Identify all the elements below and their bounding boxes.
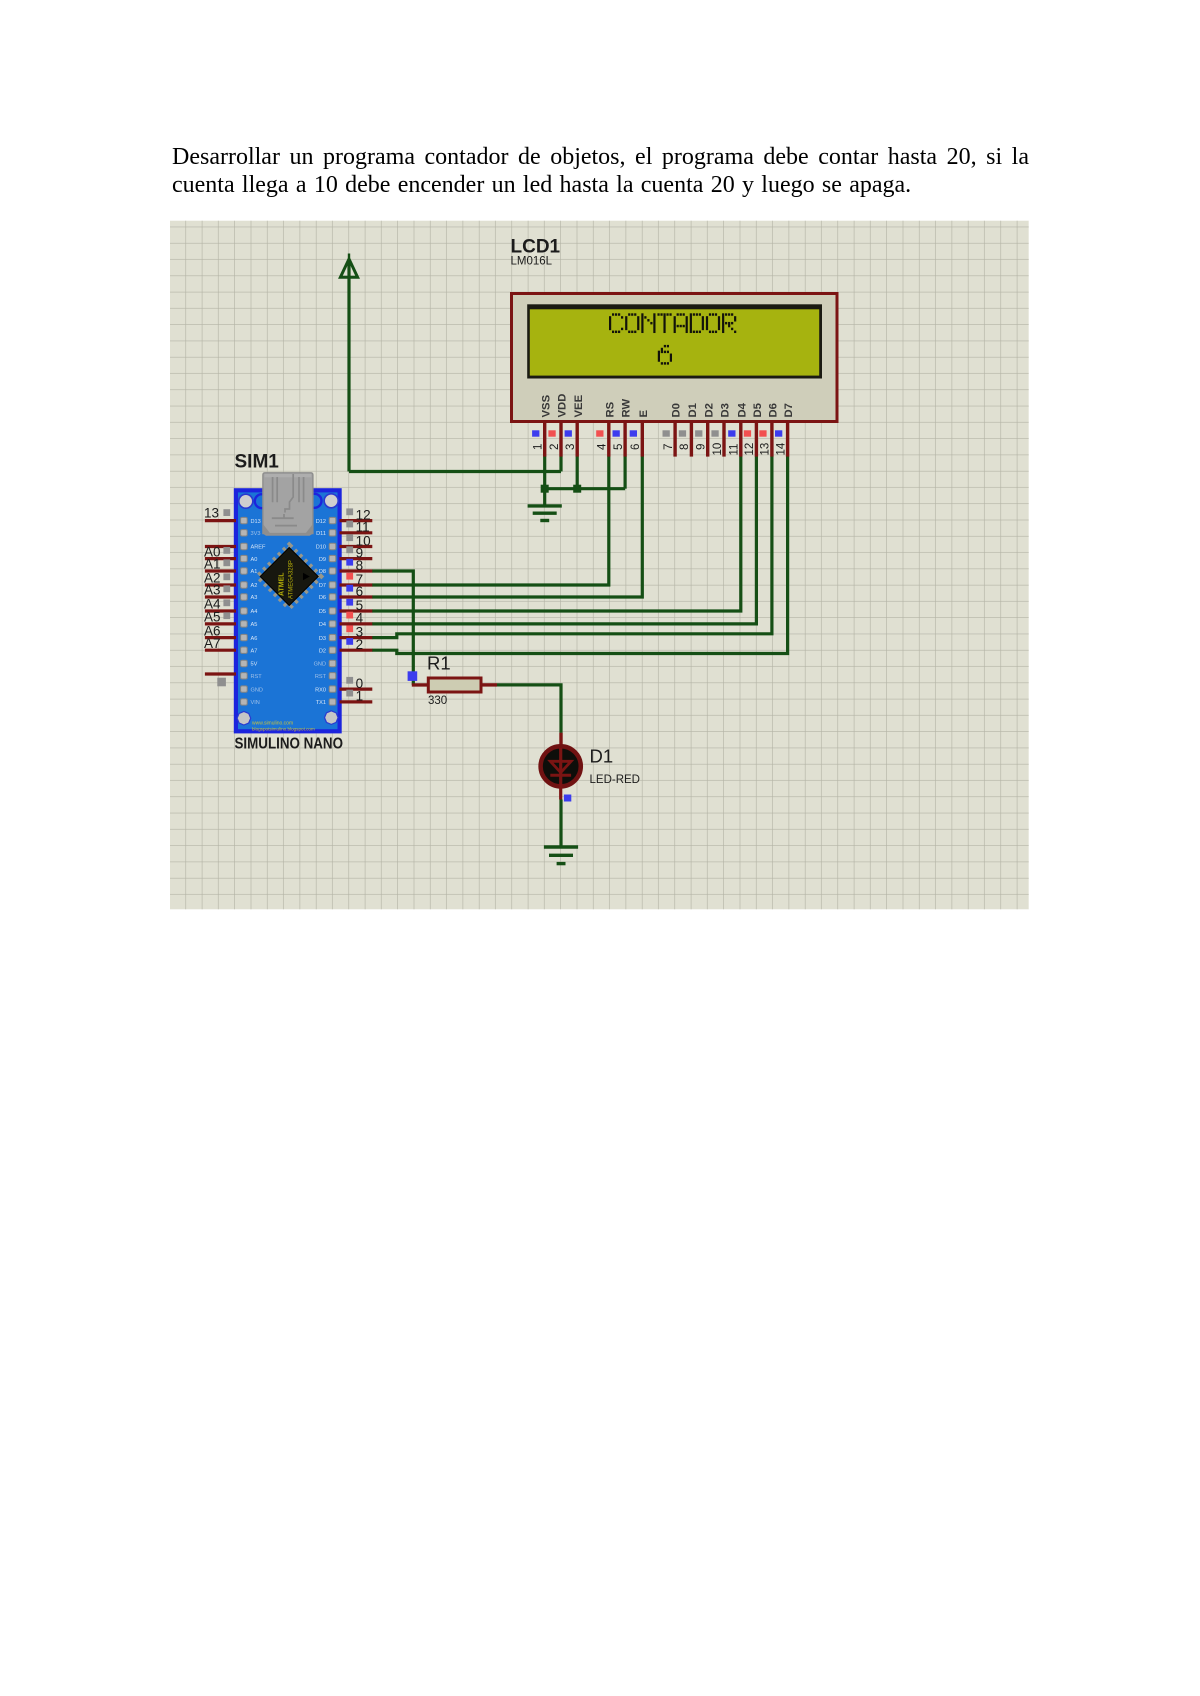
net label 3 — [346, 624, 363, 639]
node junction blue square at R1 — [408, 671, 418, 681]
svg-text:A4: A4 — [251, 609, 258, 615]
svg-text:3: 3 — [565, 444, 577, 450]
svg-text:A1: A1 — [251, 569, 258, 575]
net label A4 — [204, 597, 230, 612]
nano pin A0 stub — [205, 557, 236, 560]
USB mini connector — [255, 473, 322, 536]
nano on-board pin names — [251, 519, 327, 732]
wire LCD RW pin5 to ground bus — [623, 456, 626, 488]
svg-text:D11: D11 — [316, 531, 326, 537]
LCD pin 6 E — [630, 410, 650, 457]
svg-text:13: 13 — [204, 506, 219, 521]
svg-text:VEE: VEE — [573, 394, 585, 417]
svg-text:4: 4 — [597, 443, 609, 450]
svg-text:A2: A2 — [251, 583, 258, 589]
net label 0 — [346, 676, 363, 691]
svg-text:E: E — [638, 410, 650, 418]
wire LCD D6 pin13 to nano D3 — [372, 456, 772, 637]
power terminal VCC arrow — [340, 254, 357, 472]
nano pin pads — [241, 517, 336, 705]
node blue square below LED — [564, 795, 571, 802]
net label 1 — [346, 689, 363, 704]
wire LCD RS pin4 to nano D7 — [372, 456, 609, 585]
svg-text:VSS: VSS — [540, 394, 552, 417]
junction VSS-ground — [541, 485, 549, 493]
svg-text:D7: D7 — [783, 403, 795, 417]
svg-text:D0: D0 — [671, 403, 683, 417]
svg-text:RW: RW — [621, 399, 633, 418]
LCD pin 5 RW — [613, 399, 633, 457]
nano pin A6 stub — [205, 636, 236, 639]
junction VEE-ground — [573, 485, 581, 493]
LCD pin 9 D2 — [695, 403, 715, 457]
net label 2 — [346, 637, 363, 652]
svg-text:blogspotsimulino.blogspot.com: blogspotsimulino.blogspot.com — [252, 727, 315, 732]
svg-text:D2: D2 — [319, 648, 326, 654]
ground symbol (LCD) — [528, 489, 562, 521]
arduino nano SIM1 board — [235, 452, 340, 732]
net label A7 — [204, 636, 221, 651]
svg-text:D5: D5 — [319, 609, 326, 615]
svg-text:3V3: 3V3 — [251, 531, 261, 537]
nano pin D9 stub — [340, 557, 373, 560]
net label 11 — [346, 520, 369, 535]
svg-text:LED-RED: LED-RED — [590, 774, 640, 786]
svg-text:RX0: RX0 — [315, 687, 326, 693]
svg-text:RS: RS — [604, 401, 616, 417]
svg-text:7: 7 — [663, 444, 675, 450]
nano pin A1 stub — [205, 569, 236, 572]
svg-text:A6: A6 — [251, 636, 258, 642]
svg-text:GND: GND — [314, 662, 326, 668]
nano pin A3 stub — [205, 595, 236, 598]
svg-text:VIN: VIN — [251, 700, 260, 706]
svg-text:11: 11 — [729, 444, 741, 456]
svg-text:GND: GND — [251, 687, 263, 693]
svg-text:1: 1 — [533, 444, 545, 450]
net label 6 — [346, 584, 363, 599]
label SIMULINO NANO — [235, 736, 344, 753]
nano pin D6 stub — [340, 595, 373, 598]
resistor R1 330 — [412, 653, 497, 708]
nano pin D12 stub — [340, 519, 373, 522]
net label 5 — [346, 598, 363, 613]
nano pin RX0 stub — [340, 687, 373, 690]
svg-text:A0: A0 — [251, 557, 258, 563]
svg-text:D8: D8 — [319, 569, 326, 575]
LCD pin 8 D1 — [679, 403, 699, 457]
svg-text:D12: D12 — [316, 519, 326, 525]
net label A6 — [204, 623, 221, 638]
LCD pin 3 VEE — [565, 394, 585, 456]
svg-text:D1: D1 — [687, 403, 699, 417]
nano pin A7 stub — [205, 649, 236, 652]
svg-text:1: 1 — [356, 689, 364, 704]
svg-text:AREF: AREF — [251, 545, 267, 551]
nano pin D10 stub — [340, 545, 373, 548]
svg-text:8: 8 — [356, 558, 364, 573]
svg-text:2: 2 — [549, 444, 561, 450]
svg-text:10: 10 — [712, 443, 724, 456]
nano pin TX1 stub — [340, 700, 373, 703]
wire LCD D5 pin12 to nano D4 — [372, 456, 756, 624]
svg-text:D1: D1 — [590, 746, 614, 767]
ground symbol (LED) — [544, 847, 578, 864]
net label 10 — [346, 533, 370, 548]
wire R1 to LED D1 — [497, 685, 561, 733]
wire LED to ground — [559, 800, 562, 848]
net label A3 — [204, 583, 230, 598]
svg-text:6: 6 — [356, 584, 364, 599]
net label A1 — [204, 557, 230, 572]
nano RST stub — [205, 674, 236, 686]
svg-text:5: 5 — [613, 444, 625, 450]
svg-text:ATMEGA328P: ATMEGA328P — [289, 560, 295, 599]
LCD pin 14 D7 — [775, 403, 795, 457]
net label A2 — [204, 571, 230, 586]
ground bus wire — [545, 487, 625, 490]
svg-text:9: 9 — [696, 444, 708, 450]
LCD pin 11 D4 — [728, 402, 748, 456]
svg-text:D4: D4 — [319, 622, 326, 628]
wire LCD D4 pin11 to nano D5 — [372, 456, 741, 611]
svg-text:8: 8 — [679, 444, 691, 450]
svg-text:D6: D6 — [319, 595, 326, 601]
nano pin A2 stub — [205, 583, 236, 586]
svg-text:LCD1: LCD1 — [511, 237, 561, 258]
svg-text:330: 330 — [428, 695, 447, 707]
LCD pin 10 D3 — [711, 403, 731, 457]
schematic grid panel — [170, 221, 1029, 910]
wire LCD E pin6 to nano D6 — [372, 456, 642, 597]
svg-text:D3: D3 — [720, 403, 732, 417]
svg-text:D5: D5 — [752, 403, 764, 417]
net label 9 — [346, 545, 363, 560]
nano pin D5 stub — [340, 609, 373, 612]
svg-text:SIMULINO NANO: SIMULINO NANO — [235, 736, 344, 753]
svg-text:14: 14 — [775, 442, 787, 455]
svg-text:D10: D10 — [316, 545, 326, 551]
nano pin A5 stub — [205, 622, 236, 625]
svg-text:A3: A3 — [204, 583, 221, 598]
svg-text:2: 2 — [356, 637, 364, 652]
svg-text:A1: A1 — [204, 557, 221, 572]
ATMEGA328P chip — [258, 546, 320, 608]
nano pin D2 stub — [340, 649, 373, 652]
LCD pin 12 D5 — [744, 403, 764, 457]
svg-text:A7: A7 — [204, 636, 221, 651]
nano pin D11 stub — [340, 531, 373, 534]
nano AREF stub — [205, 545, 236, 548]
net label 4 — [346, 611, 363, 626]
nano pin D3 stub — [340, 636, 373, 639]
net label 7 — [346, 572, 363, 587]
svg-text:D7: D7 — [319, 583, 326, 589]
nano pin A4 stub — [205, 609, 236, 612]
nano pin D7 stub — [340, 583, 373, 586]
svg-text:R1: R1 — [427, 653, 451, 674]
svg-text:A3: A3 — [251, 595, 258, 601]
svg-text:LM016L: LM016L — [511, 256, 553, 268]
LCD pin 2 VDD — [548, 394, 568, 457]
net label A0 — [204, 544, 230, 559]
wire LCD VSS pin1 to ground bus — [543, 456, 546, 488]
LCD pin 13 D6 — [759, 403, 779, 457]
LCD pin 1 VSS — [532, 394, 552, 456]
LCD pin 4 RS — [596, 401, 616, 456]
svg-text:D13: D13 — [251, 519, 261, 525]
svg-text:D4: D4 — [736, 402, 748, 417]
net label 13 — [204, 506, 230, 521]
nano pin 13 stub — [205, 519, 236, 522]
wire LCD D7 pin14 to nano D2 — [372, 456, 788, 653]
LCD pin 7 D0 — [663, 403, 683, 457]
svg-text:VDD: VDD — [557, 394, 569, 418]
wire LCD VEE pin3 to ground bus — [576, 456, 579, 488]
nano pin D8 stub — [340, 569, 373, 572]
svg-text:A5: A5 — [251, 622, 258, 628]
nano pin D4 stub — [340, 622, 373, 625]
svg-text:D2: D2 — [703, 403, 715, 417]
svg-text:13: 13 — [760, 443, 772, 456]
LCD display LCD1 LM016L — [511, 237, 838, 422]
svg-text:12: 12 — [744, 443, 756, 456]
svg-text:RST: RST — [251, 674, 263, 680]
svg-text:A7: A7 — [251, 648, 258, 654]
svg-text:D9: D9 — [319, 557, 326, 563]
svg-text:RST: RST — [315, 674, 327, 680]
wire nano D8 to resistor R1 — [372, 571, 413, 685]
svg-text:D3: D3 — [319, 636, 326, 642]
wire VCC to LCD VDD pin2 — [349, 456, 561, 471]
svg-text:SIM1: SIM1 — [235, 452, 280, 473]
net label 8 — [346, 558, 363, 573]
svg-text:6: 6 — [630, 444, 642, 450]
svg-text:5V: 5V — [251, 662, 258, 668]
net label 12 — [346, 507, 370, 522]
svg-text:TX1: TX1 — [316, 700, 326, 706]
LED D1 LED-RED — [541, 733, 640, 800]
svg-text:ATMEL: ATMEL — [279, 572, 286, 596]
net label A5 — [204, 610, 230, 625]
svg-text:D6: D6 — [768, 403, 780, 417]
